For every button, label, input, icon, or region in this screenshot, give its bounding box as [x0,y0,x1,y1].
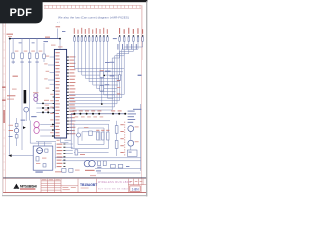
page left gray edge [1,8,4,195]
crystal X101 black bar [24,90,27,103]
red crenellated top border [44,5,142,8]
page background [0,0,149,198]
buzzer PB101 box [30,116,54,143]
page right gray edge [146,1,147,196]
IC left side stubs upper [48,57,54,84]
diode D103 [28,51,35,59]
red border dark ticks left [2,87,5,123]
reed switch lines with dots [36,100,54,114]
IC left pin stubs lower [53,91,55,136]
IC right lower stubs to bus [69,114,72,149]
left group wires staircase [74,41,124,98]
right grid box [128,179,146,185]
resistor on bus R101 [43,37,50,43]
wires between power area and loops [74,150,109,155]
IC bottom stub [57,138,72,142]
node: bus left junction [9,38,11,40]
svg-text:TB15AGBT: TB15AGBT [80,183,98,187]
transformer double circle bottom [84,160,106,171]
red dashed right border [141,5,142,192]
Mitsubishi three-diamond logo [13,184,19,189]
title block bottom border red [3,191,146,194]
left group resistors x10 [74,28,109,41]
small boxes above title block right [90,164,141,176]
IC pin labels left inside [55,52,59,136]
left long wire from bus to bottom [9,39,11,156]
lamp circle on ladder [24,107,29,121]
diode D104 [36,51,43,59]
transistor Q101 cluster left [9,118,26,146]
nested loop rectangles bottom middle [71,121,110,149]
PDF badge [0,0,43,23]
title block top border [3,178,146,179]
svg-text:PDF: PDF [10,7,33,19]
cap C105 mid right [100,62,111,105]
wires into power box top [36,142,56,146]
arrow junction left [9,154,12,157]
transistor Q103 [128,126,134,132]
IC right pin stubs [67,57,69,134]
wire: VCC stub up [56,26,66,38]
capacitor C101 [43,54,46,58]
MITSUBISHI wordmark [20,185,37,190]
ladder under-box labels [12,42,39,62]
right column components [115,121,138,157]
svg-text:1-8N: 1-8N [132,187,140,191]
label red left of bus [7,34,14,35]
pink text cells [98,179,131,193]
node: bus right junction [59,38,61,40]
red dashed column [124,122,126,156]
svg-text:WIRELESS RUN LBOB: WIRELESS RUN LBOB [98,180,131,184]
sheet number box [130,186,140,192]
IC pin labels outside left lower [50,45,62,134]
svg-text:MITSUBISHI: MITSUBISHI [20,185,37,189]
resistor trio right of loops [97,132,99,140]
check/drawn cell [61,179,78,193]
svg-text:s . l: s . l [57,22,61,24]
buzzer BZ101 label purple [33,92,39,101]
right bundle labels and parts [103,62,120,95]
page top dark edge [0,0,147,2]
red text remote [7,95,15,99]
red label mid-left [12,89,17,90]
ladder vertical wires + diode boxes [13,39,44,150]
red crenellated left border [3,5,5,192]
revision table left [41,179,61,193]
blue vertical labels beside right group [113,38,137,50]
dotted junction bus [71,110,126,117]
IC right pin labels red [69,56,75,134]
wire: bus to IC top [59,39,61,50]
right group staircase down-left [69,41,143,110]
connector pin wires right [65,144,72,154]
diode D101 [12,51,19,59]
right edge wires [133,75,142,171]
connector pins right of power box [55,143,65,173]
diode D102 [21,51,28,59]
svg-text:We also the low (Can come) dia: We also the low (Can come) diagram (+MR-… [58,16,129,20]
net name stack right [128,111,136,123]
resistor label R105 [13,76,18,77]
page bottom gray edge [2,195,147,196]
drawing number blue [80,179,98,193]
transistor Q104 [128,140,134,146]
components in nested loops [77,127,110,140]
svg-text:BUY NOW WE BE MADE: BUY NOW WE BE MADE [98,187,129,190]
small boxes above title block left [62,168,80,172]
right group resistors x6 [119,28,144,41]
relay box [127,150,137,156]
power supply box PC101 [33,146,53,173]
lower bus lines across [8,148,140,160]
title text top [57,16,129,24]
wire: main top bus [7,34,61,50]
